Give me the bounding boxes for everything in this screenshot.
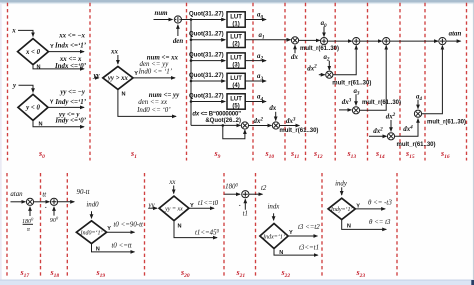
wire a2dx2 into adder2	[333, 46, 356, 75]
svg-text:Indx=‘1’: Indx=‘1’	[262, 233, 285, 240]
wire a3dx3 into adder3	[360, 46, 387, 111]
wire Y branch of x<0	[48, 51, 84, 53]
wire dx up into a1 mult	[294, 45, 296, 53]
wire N branch t1<=45	[174, 221, 217, 238]
wire 90 up into adder	[53, 207, 55, 216]
wire a0 output	[245, 19, 266, 21]
svg-text:indx: indx	[267, 203, 280, 210]
multiplier a3*dx3	[352, 107, 359, 114]
wire adder1 to adder2	[328, 40, 352, 42]
decision diamond y<0	[18, 94, 48, 120]
wire dx2 to mult	[249, 125, 272, 127]
wire t1 up into adder	[244, 199, 246, 209]
svg-text:(3): (3)	[232, 62, 239, 68]
svg-text:mult_r(61..30): mult_r(61..30)	[427, 120, 466, 126]
svg-text:x < 0: x < 0	[25, 49, 41, 56]
wire atan into deg mult	[11, 201, 26, 203]
svg-text:-: -	[45, 204, 47, 210]
svg-text:LUT: LUT	[230, 76, 242, 82]
svg-text:Quot(31..27): Quot(31..27)	[189, 52, 224, 58]
wire N branch t3<=t1	[274, 249, 318, 256]
state separator dashed lines (top half)	[7, 3, 9, 161]
svg-text:Y: Y	[50, 44, 54, 50]
svg-text:t3<=t1: t3<=t1	[299, 244, 319, 251]
svg-text:xx: xx	[110, 48, 118, 55]
wire a3 output	[245, 80, 266, 82]
wire Y branch of y<0	[48, 106, 84, 108]
adder1	[320, 38, 327, 45]
svg-text:t2: t2	[261, 185, 267, 192]
svg-text:ind0: ind0	[86, 202, 99, 209]
svg-text:indy: indy	[335, 181, 348, 188]
Quot row 2 wire	[191, 39, 225, 41]
wire a4 output	[245, 101, 266, 103]
wire adder3 to adder4	[390, 40, 438, 42]
wire dx2 into a2 mult	[319, 74, 325, 76]
svg-text:den: den	[173, 38, 184, 45]
wire xx to diamond	[117, 55, 119, 64]
wire Y branch t3<=t2	[288, 235, 317, 237]
svg-text:yy <= −y: yy <= −y	[59, 89, 86, 96]
multiplier dx2*dx	[272, 122, 279, 129]
wire a3 down into a3 mult	[355, 94, 357, 105]
svg-text:(1): (1)	[232, 21, 239, 27]
wire a4dx4 into adder4	[422, 46, 443, 114]
multiplier a4*dx4	[414, 110, 421, 117]
decision diamond yy=xx	[159, 196, 189, 221]
svg-text:θ <= t3: θ <= t3	[369, 219, 391, 226]
svg-text:mult_r(61..30): mult_r(61..30)	[362, 100, 401, 106]
svg-text:xx <= x: xx <= x	[59, 56, 82, 63]
svg-text:θ <= -t3: θ <= -t3	[368, 199, 392, 206]
svg-text:N: N	[178, 224, 182, 230]
wire N branch of yy>xx	[118, 89, 176, 116]
LUT (3)	[227, 53, 245, 68]
svg-text:y < 0: y < 0	[25, 105, 40, 112]
state separator dashed lines (bottom half)	[6, 173, 8, 278]
svg-text:Ind0 <= ‘0’: Ind0 <= ‘0’	[136, 107, 171, 114]
svg-text:mult_r(61..30): mult_r(61..30)	[279, 128, 318, 134]
Quot row 1 wire	[191, 19, 225, 21]
junction dots on bus	[190, 18, 193, 21]
wire dx3 output	[280, 125, 300, 127]
wire N branch of x<0	[33, 65, 84, 69]
svg-text:mult_r(61..30): mult_r(61..30)	[397, 142, 436, 148]
wire dx to squarer mult	[191, 124, 240, 126]
wire dx2 into dx4 mult	[369, 135, 387, 137]
svg-text:(4): (4)	[232, 83, 239, 89]
svg-text:x: x	[11, 28, 16, 35]
wire 180/pi up into mult	[29, 207, 31, 216]
quotient bus	[190, 20, 192, 126]
svg-text:num: num	[154, 10, 168, 17]
svg-text:N: N	[37, 65, 41, 71]
Quot row 3 wire	[191, 60, 225, 62]
svg-text:den <= xx: den <= xx	[138, 99, 168, 106]
wire Y branch t1<=t0	[189, 207, 214, 209]
svg-text:LUT: LUT	[230, 55, 242, 61]
svg-text:Quot(31..27): Quot(31..27)	[189, 73, 224, 79]
wire yy into diamond	[149, 207, 158, 209]
decision diamond Indx='1'	[260, 224, 288, 249]
svg-text:t0 <=90-tt: t0 <=90-tt	[114, 222, 144, 229]
svg-text:LUT: LUT	[230, 35, 242, 41]
svg-text:mult_r(61..30): mult_r(61..30)	[332, 81, 371, 87]
wire den to divider	[177, 25, 179, 36]
right window edge	[473, 3, 474, 280]
svg-text:Y: Y	[289, 230, 293, 236]
divider circle	[174, 16, 181, 23]
svg-text:t1<=t0: t1<=t0	[198, 200, 219, 207]
svg-text:Ind0=‘1’: Ind0=‘1’	[79, 230, 102, 237]
wire indx down into diamond	[273, 213, 275, 220]
svg-text:Quot(31..27): Quot(31..27)	[189, 32, 224, 38]
wire dx into mult top	[275, 112, 277, 121]
wire N branch theta<=t3	[342, 220, 387, 230]
wire y to diamond	[19, 85, 34, 92]
svg-text:Y: Y	[107, 226, 111, 232]
svg-text:Indy=‘1’: Indy=‘1’	[330, 206, 353, 213]
wire N branch of y<0	[33, 120, 84, 126]
wire dx4 into a4 mult	[395, 119, 418, 137]
wire t2 output	[249, 193, 263, 195]
svg-text:LUT: LUT	[230, 14, 242, 20]
wire a0 down into adder1	[323, 27, 325, 37]
wire Y branch of yy>xx	[133, 77, 175, 79]
decision diamond Ind0='1'	[76, 221, 106, 244]
svg-text:t0 <=tt: t0 <=tt	[112, 243, 133, 250]
wire indy down into diamond	[341, 187, 343, 195]
svg-text:yy = xx: yy = xx	[164, 207, 183, 213]
wire a1 output to mult	[245, 39, 290, 41]
wire 180 into adder	[225, 193, 241, 195]
svg-text:t3 <=t2: t3 <=t2	[298, 224, 320, 231]
svg-text:t1<=450: t1<=450	[195, 229, 220, 236]
wire N branch t0<=tt	[92, 244, 135, 252]
wire a2 down into a2 mult	[328, 61, 330, 70]
wire Y branch theta<=-t3	[355, 208, 385, 210]
svg-text:dx: dx	[269, 105, 276, 112]
bottom status bar	[0, 280, 474, 285]
wire a4 down into a4 mult	[417, 100, 419, 109]
svg-text:atan: atan	[10, 191, 23, 198]
svg-text:&Quot(26..2): &Quot(26..2)	[205, 118, 241, 124]
wire Y branch t0<=90-tt	[107, 231, 135, 233]
wire dx loop to mult bottom	[223, 125, 245, 138]
svg-text:mult_r(61..30): mult_r(61..30)	[300, 46, 339, 52]
svg-text:xx: xx	[168, 179, 176, 186]
svg-text:Ind0 <= ‘1’: Ind0 <= ‘1’	[138, 68, 173, 75]
multiplier dx*dx	[241, 122, 248, 129]
svg-text:-: -	[239, 203, 241, 209]
wire dx3 into a3 mult	[339, 109, 351, 111]
multiplier a1*dx	[291, 37, 298, 44]
svg-text:Indy <=‘0’: Indy <=‘0’	[54, 118, 86, 125]
svg-text:dx <= B“0000000”: dx <= B“0000000”	[192, 112, 241, 118]
Quot row 5 wire	[191, 101, 225, 103]
Quot row 4 wire	[191, 80, 225, 82]
junction dot dx loop	[222, 124, 225, 127]
wire 90-tt output	[58, 201, 75, 203]
svg-text:LUT: LUT	[230, 96, 242, 102]
svg-text:Y: Y	[50, 100, 54, 106]
svg-text:(2): (2)	[232, 42, 239, 48]
svg-text:Indy <=‘1’: Indy <=‘1’	[54, 99, 86, 106]
LUT (5)	[227, 94, 245, 109]
wire tt to adder	[34, 201, 50, 203]
decision diamond Indy='1'	[328, 198, 355, 219]
wire adder2 to adder3	[360, 40, 382, 42]
LUT (1)	[227, 12, 245, 27]
decision diamond x<0	[18, 39, 49, 65]
svg-text:Quot(31..27): Quot(31..27)	[189, 93, 224, 99]
wire x to diamond	[18, 30, 33, 36]
adder2	[353, 38, 360, 45]
adder3	[383, 38, 390, 45]
wire xx down into diamond	[173, 186, 175, 194]
wire yy to diamond	[94, 77, 99, 79]
svg-text:(5): (5)	[232, 103, 239, 109]
wire num to divider	[154, 19, 173, 21]
decision diamond yy>xx	[103, 66, 133, 89]
multiplier a2*dx2	[326, 71, 333, 78]
multiplier atan*180/pi	[26, 198, 33, 205]
wire divider output to bus	[182, 19, 192, 21]
svg-text:Quot(31..27): Quot(31..27)	[189, 11, 224, 17]
wire atan output	[446, 40, 461, 42]
top window band	[0, 0, 474, 3]
svg-text:t1: t1	[243, 210, 248, 217]
wire a1dx to adder1	[299, 39, 320, 41]
adder 180-t1	[242, 191, 249, 198]
adder4	[439, 38, 446, 45]
svg-text:yy > xx: yy > xx	[107, 75, 129, 82]
LUT (4)	[227, 73, 245, 88]
svg-text:atan: atan	[449, 31, 462, 38]
svg-text:N: N	[122, 91, 126, 97]
wire dx2 down into dx4 mult	[390, 120, 392, 131]
svg-text:N: N	[347, 223, 351, 229]
svg-text:den <= yy: den <= yy	[139, 61, 169, 68]
wire a2 output	[245, 60, 266, 62]
svg-text:Indx <=‘0’: Indx <=‘0’	[54, 63, 87, 70]
wire ind0 down into diamond	[91, 211, 93, 218]
multiplier dx2*dx2	[387, 133, 394, 140]
svg-text:xx <= −x: xx <= −x	[58, 32, 85, 39]
adder 90-tt	[50, 198, 57, 205]
left window edge	[0, 3, 2, 280]
svg-text:Indx <=‘1’: Indx <=‘1’	[54, 42, 87, 49]
svg-text:dx: dx	[291, 54, 298, 61]
LUT (2)	[227, 32, 245, 47]
svg-text:90-tt: 90-tt	[77, 189, 91, 196]
